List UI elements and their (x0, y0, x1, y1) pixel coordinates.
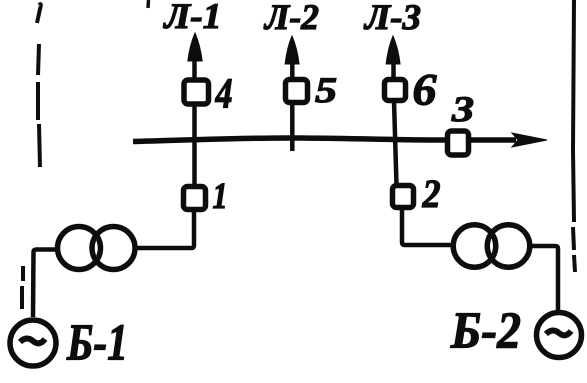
label 3 (451, 89, 474, 129)
svg-text:Б-2: Б-2 (450, 303, 521, 360)
breaker 6 (385, 80, 406, 101)
wire busbar with outgoing arrow (133, 133, 547, 147)
transformer T2 (two-winding, right) (453, 225, 530, 268)
svg-text:6: 6 (412, 65, 437, 115)
label 2 (422, 171, 441, 216)
wire feeder Л-1 arrow (188, 33, 202, 79)
svg-text:Б-1: Б-1 (66, 315, 128, 372)
wire breaker 1 to transformer T1 (134, 210, 194, 248)
svg-text:1: 1 (212, 176, 227, 217)
breaker 4 (184, 80, 209, 104)
wire Л-3 from breaker 6 to busbar to breaker 2 (394, 101, 397, 185)
breaker 1 (184, 187, 206, 210)
label 6 (412, 65, 437, 115)
breaker 2 (393, 186, 414, 208)
svg-text:5: 5 (315, 70, 337, 110)
wire breaker 2 to transformer T2 (402, 208, 454, 245)
label 4 (215, 71, 233, 118)
net label Л-3 (363, 0, 421, 37)
breaker 5 (286, 80, 308, 103)
wire feeder Л-3 arrow (386, 36, 400, 79)
transformer T1 (two-winding, left) (58, 227, 136, 270)
label Б-2 (450, 303, 521, 360)
generator Б-2 (537, 313, 582, 358)
wire transformer T1 to generator Б-1 (33, 250, 58, 318)
generator Б-1 (10, 320, 56, 366)
net label Л-1 (162, 0, 221, 36)
label 1 (212, 176, 227, 217)
wire feeder Л-2 arrow (285, 36, 299, 79)
svg-text:4: 4 (215, 71, 233, 118)
svg-text:Л-2: Л-2 (263, 0, 319, 37)
wire Л-1 from breaker 4 to busbar to breaker 1 (192, 105, 197, 185)
svg-text:2: 2 (422, 171, 441, 216)
breaker 3 on busbar (448, 131, 469, 155)
svg-text:3: 3 (451, 89, 474, 129)
wire Л-2 from breaker 5 to busbar stub (290, 103, 295, 151)
net label Л-2 (263, 0, 319, 37)
svg-text:Л-1: Л-1 (162, 0, 221, 36)
label Б-1 (66, 315, 128, 372)
label 5 (315, 70, 337, 110)
wire transformer T2 to generator Б-2 (529, 246, 558, 313)
svg-text:Л-3: Л-3 (363, 0, 421, 37)
